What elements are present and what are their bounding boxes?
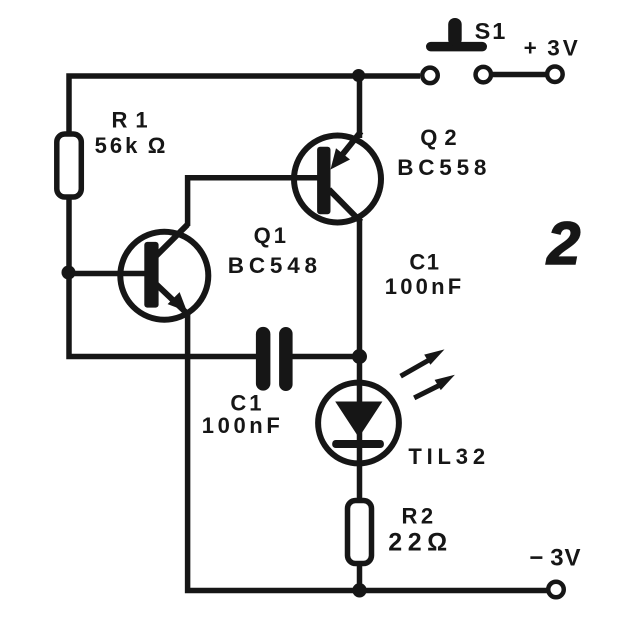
- svg-text:100nF: 100nF: [385, 274, 465, 299]
- svg-text:C1: C1: [409, 249, 440, 274]
- transistor Q2: [294, 132, 381, 223]
- switch contact right: [476, 67, 492, 83]
- node top rail junction: [352, 69, 365, 82]
- wire Q1 base: [71, 271, 150, 277]
- svg-text:TIL32: TIL32: [408, 444, 489, 469]
- terminal +3V: [547, 66, 563, 82]
- svg-text:Q2: Q2: [420, 125, 463, 150]
- wire to +3V terminal: [492, 72, 548, 78]
- svg-text:R2: R2: [402, 504, 437, 529]
- capacitor C1: [256, 327, 293, 391]
- wire top rail and left drop: [69, 76, 420, 132]
- svg-text:100nF: 100nF: [202, 413, 284, 438]
- wire Q2 collector down: [357, 221, 363, 357]
- wire capacitor to LED node: [292, 354, 360, 360]
- svg-text:C1: C1: [230, 390, 264, 415]
- svg-text:BC548: BC548: [228, 253, 322, 278]
- svg-text:− 3V: − 3V: [529, 545, 581, 572]
- node base junction Q1: [62, 266, 76, 280]
- svg-text:+ 3V: + 3V: [524, 35, 581, 60]
- resistor R2: [348, 501, 372, 564]
- LED TIL32: [318, 357, 399, 501]
- switch contact left: [422, 68, 438, 84]
- svg-text:Q1: Q1: [254, 223, 289, 248]
- svg-text:BC558: BC558: [397, 155, 491, 180]
- wire Q1 emitter down and bottom rail: [188, 312, 548, 591]
- wire Q2 emitter up: [357, 76, 363, 138]
- node capacitor junction: [352, 349, 367, 364]
- wire Q1 collector to Q2 base: [188, 178, 318, 226]
- svg-text:R1: R1: [112, 108, 156, 133]
- node bottom junction: [352, 583, 366, 597]
- svg-text:2: 2: [546, 210, 580, 277]
- transistor Q1: [120, 225, 208, 320]
- svg-text:S1: S1: [475, 18, 508, 44]
- wire left vertical to capacitor row: [69, 200, 256, 357]
- wire R2 to bottom rail: [357, 563, 363, 588]
- switch S1: [426, 18, 487, 51]
- svg-text:22Ω: 22Ω: [388, 528, 452, 556]
- terminal -3V: [548, 582, 564, 598]
- LED light arrow 2: [414, 375, 455, 398]
- LED light arrow 1: [401, 349, 445, 376]
- resistor R1: [57, 134, 82, 197]
- svg-text:56k Ω: 56k Ω: [95, 133, 169, 158]
